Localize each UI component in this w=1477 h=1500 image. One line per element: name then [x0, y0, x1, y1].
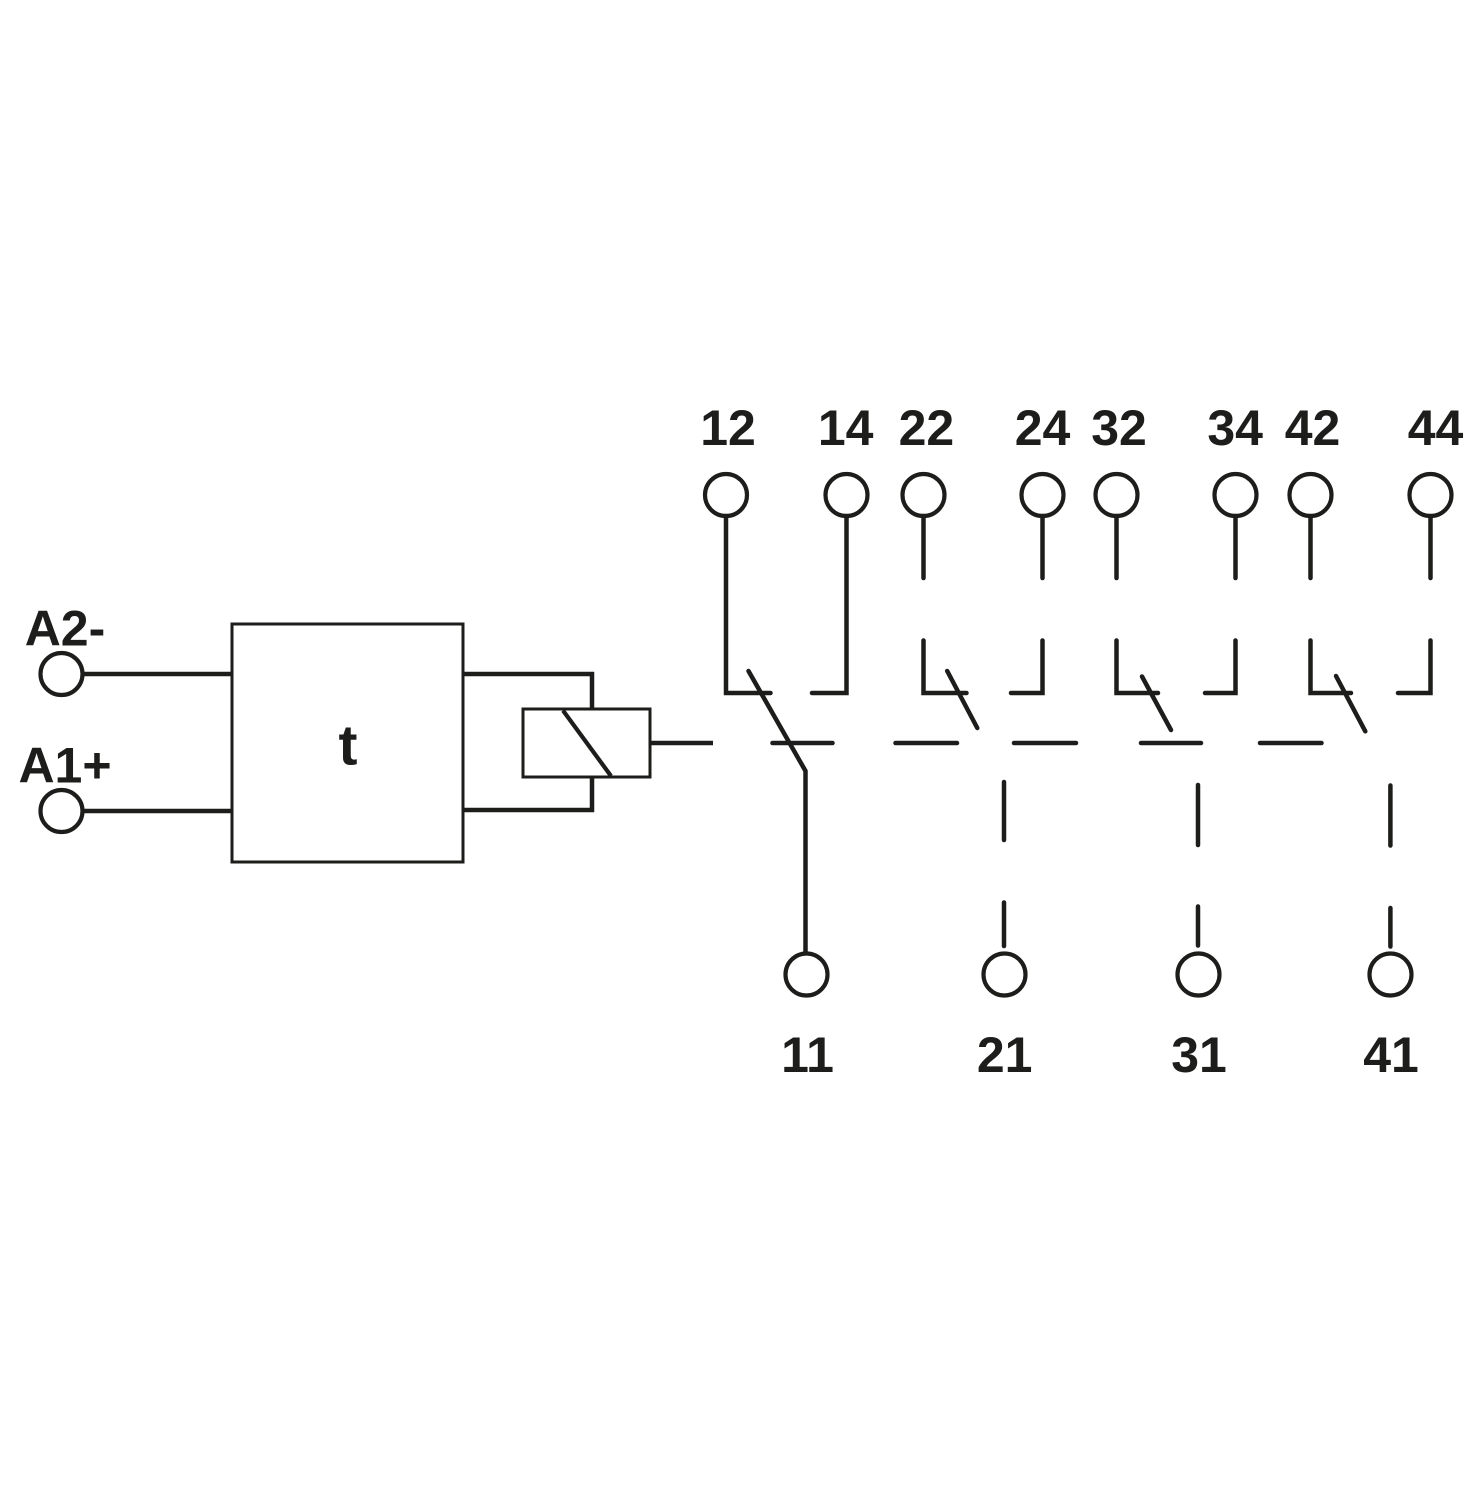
- wire 24 elbow seat: [1011, 641, 1043, 694]
- svg-text:A1+: A1+: [18, 738, 111, 794]
- svg-text:t: t: [339, 714, 358, 778]
- svg-text:11: 11: [781, 1027, 834, 1083]
- svg-text:31: 31: [1171, 1027, 1227, 1083]
- contact 2 link dash upper: [1002, 782, 1007, 840]
- svg-text:14: 14: [818, 400, 874, 456]
- relay coil K1: [523, 709, 650, 777]
- svg-text:22: 22: [899, 400, 955, 456]
- wire 12 lead and seat: [726, 516, 771, 693]
- contact 4 link dash lower: [1388, 908, 1393, 947]
- contact 4 lever: [1336, 676, 1365, 731]
- svg-text:24: 24: [1015, 400, 1071, 456]
- terminal 44 circle: [1410, 474, 1452, 516]
- contact 3 link dash upper: [1196, 785, 1201, 845]
- wire 32 elbow seat: [1117, 641, 1159, 694]
- wire 14 lead and seat: [812, 516, 847, 693]
- wire A2 to timer box: [83, 672, 233, 677]
- terminal 22 circle: [903, 474, 945, 516]
- terminal 24 circle: [1022, 474, 1064, 516]
- wire box to coil top: [463, 674, 592, 710]
- wire A1 to timer box: [83, 809, 233, 814]
- coil diagonal stroke: [563, 711, 611, 777]
- wire 42 lead: [1308, 516, 1313, 578]
- timer function box t: [232, 624, 463, 862]
- terminal 41 circle: [1370, 954, 1412, 996]
- contact 2 lever: [947, 671, 977, 728]
- wire 44 elbow seat: [1398, 641, 1431, 694]
- contact 2 link dash lower: [1002, 903, 1007, 947]
- wire 24 lead: [1040, 516, 1045, 578]
- svg-text:34: 34: [1207, 400, 1263, 456]
- terminal 14 circle: [826, 474, 868, 516]
- terminal 12 circle: [705, 474, 747, 516]
- svg-text:42: 42: [1285, 400, 1341, 456]
- svg-text:21: 21: [977, 1027, 1033, 1083]
- terminal 31 circle: [1178, 954, 1220, 996]
- svg-text:44: 44: [1408, 400, 1464, 456]
- svg-text:32: 32: [1091, 400, 1147, 456]
- terminal 34 circle: [1215, 474, 1257, 516]
- terminal 11 circle: [786, 954, 828, 996]
- wire 32 lead: [1114, 516, 1119, 578]
- svg-text:A2-: A2-: [25, 601, 106, 657]
- terminal 42 circle: [1290, 474, 1332, 516]
- svg-text:12: 12: [700, 400, 756, 456]
- terminal 21 circle: [984, 954, 1026, 996]
- wire 34 lead: [1233, 516, 1238, 578]
- wire 22 elbow seat: [924, 641, 967, 694]
- wire 44 lead: [1428, 516, 1433, 578]
- wire 22 lead: [921, 516, 926, 578]
- wire 42 elbow seat: [1311, 641, 1352, 694]
- svg-text:41: 41: [1363, 1027, 1419, 1083]
- contact 3 link dash lower: [1196, 907, 1201, 946]
- wire box to coil bottom: [463, 777, 592, 810]
- terminal A2 circle: [41, 653, 83, 695]
- contact 1 lever to terminal 11: [749, 671, 806, 953]
- wire coil output: [650, 741, 713, 746]
- terminal A1 circle: [41, 790, 83, 832]
- actuation dashed line: [773, 741, 1322, 746]
- contact 3 lever: [1142, 677, 1171, 731]
- contact 4 link dash upper: [1388, 786, 1393, 846]
- wire 34 elbow seat: [1205, 641, 1236, 694]
- terminal 32 circle: [1096, 474, 1138, 516]
